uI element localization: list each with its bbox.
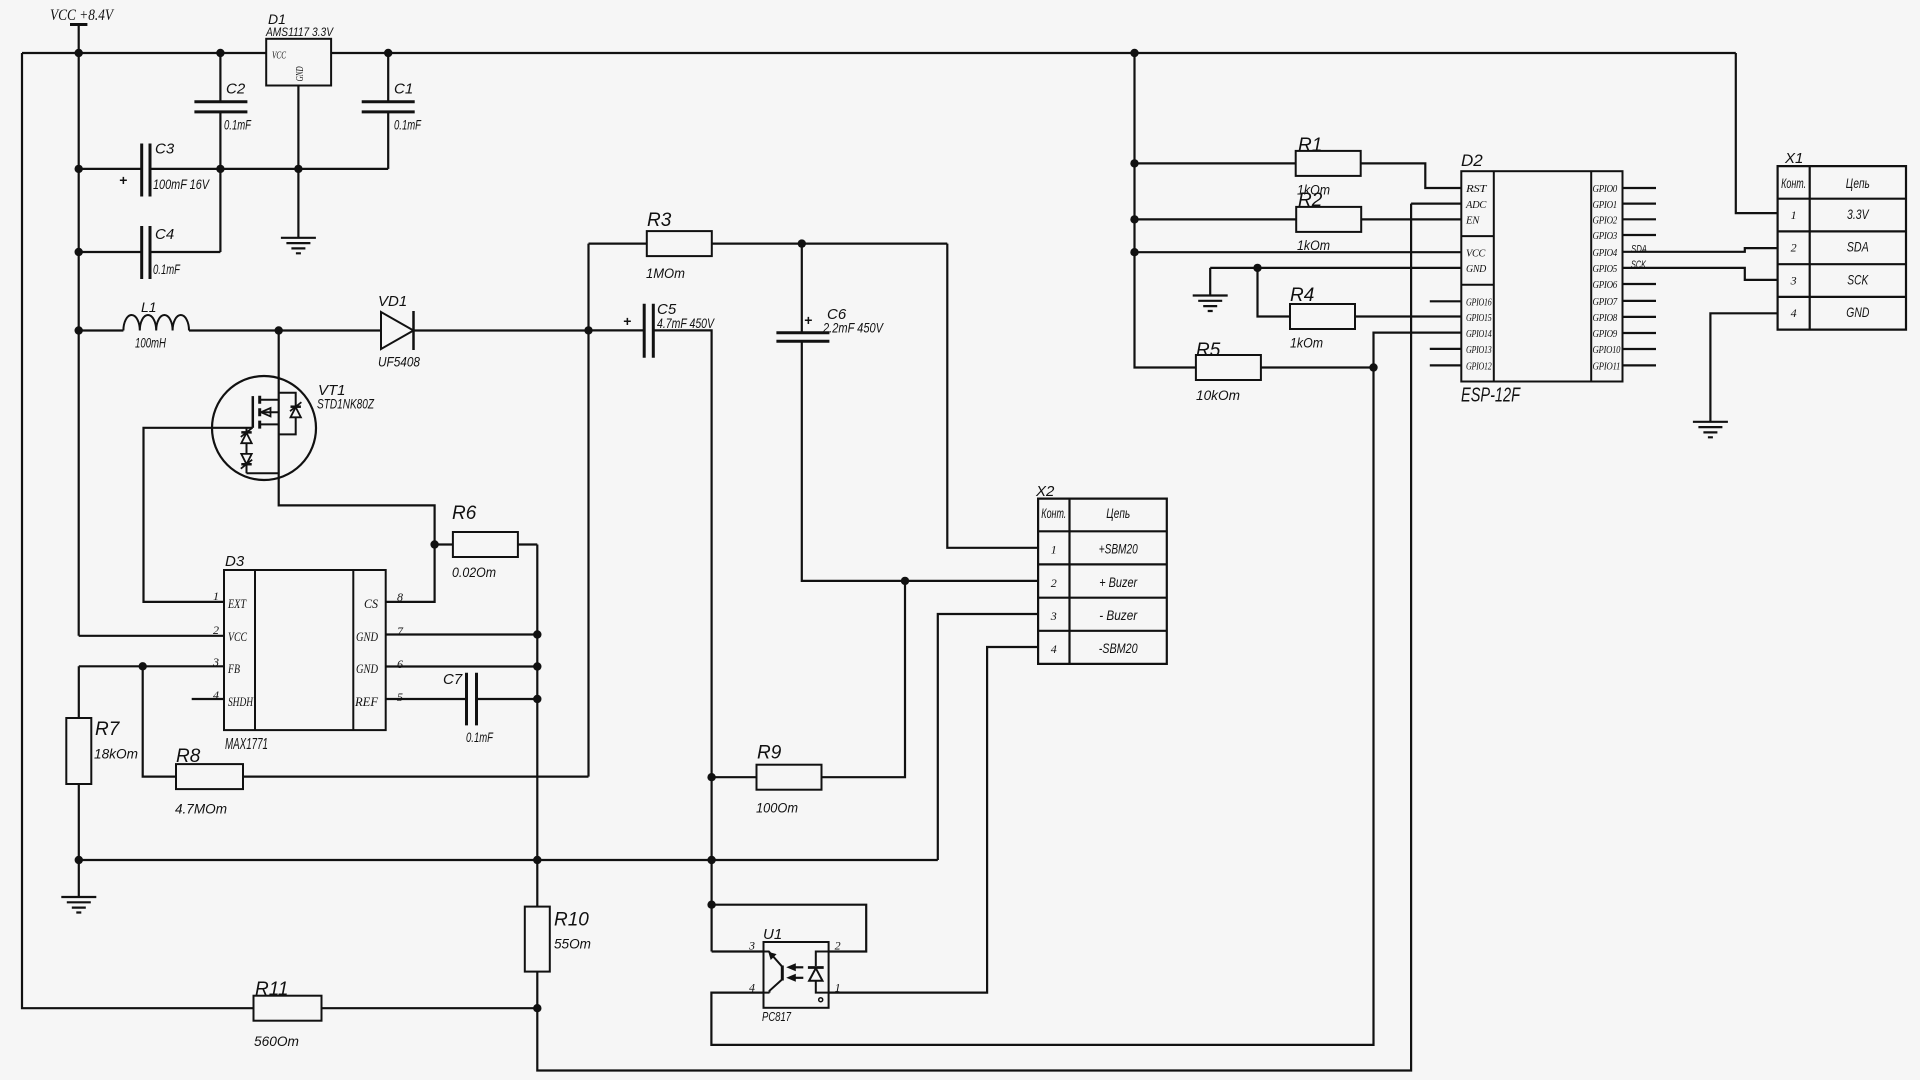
svg-text:C4: C4 — [155, 226, 174, 243]
svg-text:100mF 16V: 100mF 16V — [153, 176, 210, 192]
svg-text:VCC: VCC — [272, 51, 287, 62]
svg-text:100mH: 100mH — [135, 335, 167, 351]
svg-text:GPIO12: GPIO12 — [1466, 362, 1492, 373]
svg-text:C3: C3 — [155, 141, 175, 158]
svg-text:C7: C7 — [443, 671, 463, 688]
svg-text:R1: R1 — [1298, 135, 1322, 156]
svg-text:GPIO6: GPIO6 — [1593, 280, 1618, 291]
svg-text:SCK: SCK — [1631, 259, 1646, 271]
svg-text:D2: D2 — [1461, 151, 1483, 170]
svg-text:ADC: ADC — [1465, 200, 1487, 211]
svg-text:GPIO8: GPIO8 — [1593, 313, 1618, 324]
svg-text:GPIO9: GPIO9 — [1593, 329, 1618, 340]
svg-text:R11: R11 — [255, 979, 288, 1000]
svg-text:0.1mF: 0.1mF — [394, 117, 422, 133]
svg-text:+: + — [623, 313, 631, 329]
svg-text:L1: L1 — [141, 299, 157, 315]
svg-text:GPIO7: GPIO7 — [1593, 297, 1619, 308]
svg-text:R4: R4 — [1290, 285, 1314, 306]
svg-text:R5: R5 — [1196, 340, 1221, 361]
svg-text:0.02Om: 0.02Om — [452, 564, 496, 580]
svg-text:+ Buzer: + Buzer — [1099, 574, 1138, 590]
svg-text:R2: R2 — [1298, 190, 1323, 211]
svg-text:7: 7 — [397, 624, 404, 638]
svg-text:10kOm: 10kOm — [1196, 387, 1240, 403]
svg-text:GPIO2: GPIO2 — [1593, 216, 1618, 227]
svg-text:55Om: 55Om — [554, 936, 591, 952]
svg-text:-SBM20: -SBM20 — [1099, 640, 1138, 656]
svg-text:2.2mF 450V: 2.2mF 450V — [822, 320, 884, 336]
svg-text:R10: R10 — [554, 910, 589, 931]
svg-text:4.7MOm: 4.7MOm — [175, 801, 227, 817]
svg-text:3.3V: 3.3V — [1847, 206, 1870, 222]
svg-text:GPIO10: GPIO10 — [1593, 345, 1621, 356]
svg-text:GPIO15: GPIO15 — [1466, 313, 1492, 324]
svg-text:4: 4 — [1051, 642, 1057, 656]
svg-text:C2: C2 — [226, 81, 246, 98]
svg-text:+: + — [119, 172, 127, 188]
svg-text:Цепь: Цепь — [1106, 505, 1130, 521]
svg-text:6: 6 — [397, 657, 403, 671]
svg-text:VCC: VCC — [1466, 248, 1486, 259]
svg-text:GPIO13: GPIO13 — [1466, 345, 1492, 356]
svg-text:2: 2 — [1051, 576, 1057, 590]
svg-text:GPIO1: GPIO1 — [1593, 200, 1618, 211]
svg-text:GND: GND — [356, 661, 378, 676]
svg-text:- Buzer: - Buzer — [1099, 607, 1138, 623]
svg-text:R8: R8 — [176, 746, 201, 767]
svg-text:4.7mF 450V: 4.7mF 450V — [657, 315, 715, 331]
svg-text:U1: U1 — [763, 926, 782, 943]
svg-text:AMS1117 3.3V: AMS1117 3.3V — [265, 25, 334, 39]
svg-text:18kOm: 18kOm — [94, 746, 138, 762]
svg-text:UF5408: UF5408 — [378, 354, 420, 370]
svg-text:100Om: 100Om — [756, 800, 798, 816]
svg-text:SHDH: SHDH — [228, 694, 253, 709]
svg-text:1: 1 — [835, 981, 841, 995]
svg-text:ESP-12F: ESP-12F — [1461, 385, 1521, 407]
svg-text:GND: GND — [1846, 304, 1869, 320]
svg-text:VCC: VCC — [228, 629, 247, 644]
svg-text:C1: C1 — [394, 81, 413, 98]
svg-text:SDA: SDA — [1631, 243, 1647, 255]
svg-text:GND: GND — [1466, 264, 1487, 275]
svg-text:0.1mF: 0.1mF — [466, 729, 494, 745]
svg-text:1: 1 — [1791, 208, 1797, 222]
svg-text:4: 4 — [1791, 306, 1797, 320]
svg-text:R9: R9 — [757, 743, 782, 764]
svg-text:GPIO16: GPIO16 — [1466, 298, 1492, 309]
svg-text:Конт.: Конт. — [1781, 175, 1806, 191]
svg-text:+: + — [804, 312, 812, 328]
svg-text:GND: GND — [295, 66, 306, 81]
svg-text:GPIO11: GPIO11 — [1593, 362, 1621, 373]
svg-text:5: 5 — [397, 690, 403, 704]
svg-text:CS: CS — [364, 596, 378, 611]
svg-text:PC817: PC817 — [762, 1010, 792, 1024]
svg-text:1kOm: 1kOm — [1290, 335, 1323, 351]
svg-text:R7: R7 — [95, 719, 121, 740]
svg-text:SCK: SCK — [1847, 271, 1868, 287]
svg-text:GPIO3: GPIO3 — [1593, 231, 1618, 242]
svg-text:MAX1771: MAX1771 — [225, 736, 268, 753]
svg-text:1kOm: 1kOm — [1297, 237, 1330, 253]
svg-text:4: 4 — [749, 981, 755, 995]
svg-text:STD1NK80Z: STD1NK80Z — [317, 396, 374, 412]
svg-text:EN: EN — [1465, 216, 1481, 227]
svg-text:+SBM20: +SBM20 — [1099, 541, 1138, 557]
svg-text:3: 3 — [212, 655, 219, 669]
svg-text:GND: GND — [356, 629, 378, 644]
svg-text:1MOm: 1MOm — [646, 265, 685, 281]
svg-text:D3: D3 — [225, 553, 245, 570]
svg-text:3: 3 — [1790, 273, 1797, 287]
svg-text:0.1mF: 0.1mF — [153, 261, 181, 277]
svg-text:REF: REF — [354, 694, 379, 709]
svg-text:1: 1 — [1051, 543, 1057, 557]
svg-text:R6: R6 — [452, 503, 477, 524]
svg-text:X2: X2 — [1035, 483, 1055, 500]
svg-text:X1: X1 — [1784, 150, 1803, 167]
svg-text:3: 3 — [748, 939, 755, 953]
svg-text:560Om: 560Om — [254, 1033, 299, 1049]
svg-text:1: 1 — [213, 589, 219, 603]
svg-text:GPIO14: GPIO14 — [1466, 329, 1492, 340]
svg-text:Конт.: Конт. — [1041, 505, 1066, 521]
svg-text:GPIO0: GPIO0 — [1593, 184, 1618, 195]
svg-text:2: 2 — [835, 939, 841, 953]
svg-text:VD1: VD1 — [378, 293, 407, 310]
svg-text:Цепь: Цепь — [1846, 175, 1870, 191]
svg-text:RST: RST — [1465, 184, 1488, 195]
svg-text:4: 4 — [213, 688, 219, 702]
svg-text:2: 2 — [1791, 241, 1797, 255]
svg-text:VCC +8.4V: VCC +8.4V — [50, 7, 115, 24]
svg-text:SDA: SDA — [1847, 239, 1869, 255]
svg-text:2: 2 — [213, 623, 219, 637]
svg-text:0.1mF: 0.1mF — [224, 117, 252, 133]
svg-text:GPIO5: GPIO5 — [1593, 264, 1618, 275]
svg-text:GPIO4: GPIO4 — [1593, 248, 1618, 259]
svg-text:3: 3 — [1050, 609, 1057, 623]
svg-text:FB: FB — [227, 661, 240, 676]
svg-text:EXT: EXT — [227, 596, 246, 611]
svg-text:R3: R3 — [647, 210, 672, 231]
svg-text:8: 8 — [397, 590, 403, 604]
